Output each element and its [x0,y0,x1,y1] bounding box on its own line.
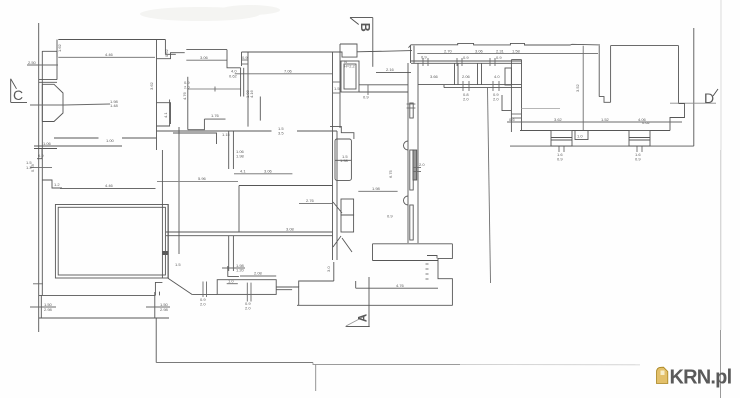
bay dimension line [30,104,110,105]
svg-text:1.0: 1.0 [577,134,583,139]
small room top left wing east [157,103,171,124]
scan smudge top [140,5,280,21]
rooms top wall row2 [157,130,272,132]
svg-text:3.06: 3.06 [475,49,484,54]
south band door ticks [463,81,499,91]
west bay upper rect [42,51,57,79]
window ticks band [423,58,495,66]
NE room east wall [678,46,680,104]
svg-text:0.9: 0.9 [363,95,369,100]
south band lower line [444,87,522,89]
door tick pair left [203,282,207,298]
svg-text:0.62: 0.62 [164,48,169,57]
svg-text:4.0: 4.0 [494,74,500,79]
section marker B [350,18,373,32]
right wing south inner wall [520,130,551,132]
svg-text:2.0: 2.0 [493,97,499,102]
dim tick crossing [222,267,245,269]
step lower left of column [157,100,170,127]
small box right mid [259,97,261,121]
svg-text:3.5: 3.5 [278,131,284,136]
corridor bottom right extension [330,126,354,139]
right wing west connect [502,95,511,111]
stairs step line [373,260,439,262]
svg-text:4.46: 4.46 [105,183,114,188]
lower outline step faint [460,364,640,366]
svg-text:1.2: 1.2 [54,182,60,187]
south band upper line [418,84,522,86]
svg-text:4.76: 4.76 [182,91,187,100]
small room rect bottom [217,280,276,295]
svg-text:2.06: 2.06 [462,74,471,79]
small room lower mid [204,118,225,120]
central room west wall [238,186,240,233]
KRN.pl logo [657,367,732,389]
svg-text:1.5: 1.5 [342,154,348,159]
svg-text:5.96: 5.96 [198,176,207,181]
central room top wall [239,185,333,187]
dimension tick left 2.5 [27,64,58,66]
svg-text:2.98: 2.98 [160,307,169,312]
svg-text:1.00: 1.00 [106,138,115,143]
wall pair east of room2a [240,68,242,97]
wall pair mid rooms upper [228,131,230,169]
corridor top wall center [242,51,413,58]
page scan edge right darker bottom [720,330,722,398]
svg-text:A: A [358,314,370,322]
svg-text:0.9: 0.9 [496,55,502,60]
svg-text:D: D [704,90,714,106]
radiator dark strip [413,150,417,180]
svg-text:1.48: 1.48 [110,103,119,108]
west wall small ledge [34,145,57,147]
svg-text:0.9: 0.9 [421,55,427,60]
section line C vertical [38,23,40,332]
stove bump 2 [404,196,409,205]
page scan edge right middle [720,150,722,330]
svg-text:0.9: 0.9 [242,55,248,60]
east wall lower pair [336,131,338,260]
svg-text:2.0: 2.0 [184,85,190,90]
svg-text:4.1: 4.1 [240,169,246,174]
west wall tie band [39,79,57,81]
dimension 4.46 room 1 [58,56,155,58]
small block above bottom room [292,287,299,305]
hall corridor south lines [359,84,408,86]
north wall room 1 [58,39,165,41]
terrace inner rectangle [58,207,165,275]
svg-text:1.58: 1.58 [512,49,521,54]
long east wall right of center [488,88,491,283]
hall tick [367,85,369,95]
lower outline horizontal [156,362,313,364]
vertical wall mid gap [178,127,180,254]
wall pair upper west [410,46,412,63]
room2a lower dim light [188,88,241,90]
right wing corridor line [522,107,561,109]
svg-text:1.98: 1.98 [236,154,245,159]
svg-text:1.20: 1.20 [236,268,245,273]
small dim 1.0 [227,283,238,285]
small niche between bays [575,131,588,140]
svg-text:0.6: 0.6 [509,117,515,122]
long east wall center block [417,63,419,243]
svg-text:B: B [358,23,372,32]
dim 2.16 hall [376,72,411,74]
section marker C [11,79,27,103]
svg-text:3.06: 3.06 [200,55,209,60]
wall ticks 1.5 [333,82,341,93]
west wall tick pair right wing [511,114,521,118]
radiator rect 3 [410,205,413,240]
svg-text:1.76: 1.76 [211,113,220,118]
room 1 east wall [156,40,158,151]
west chamfer bay [42,84,63,121]
dimension line north wing [417,53,598,55]
SW band right verticals [154,292,156,318]
room 1 NE corner step [165,40,175,55]
chamfer SW of room [168,278,192,294]
lower outline vertical [155,318,157,363]
chimney box [505,68,511,85]
lower outline drop vertical [315,365,317,392]
radiator rect 1 [410,103,413,118]
svg-text:2.50: 2.50 [28,60,37,65]
svg-text:4.46: 4.46 [105,52,114,57]
section marker A [346,314,370,327]
svg-text:5.78: 5.78 [30,163,35,172]
svg-text:2.0: 2.0 [419,162,425,167]
svg-text:0.9: 0.9 [38,153,44,158]
SW band step up [155,282,162,295]
room divider wall a [454,63,456,84]
svg-text:1.52: 1.52 [601,117,610,122]
corridor west wall pair [241,52,243,66]
right wing south outer wall [510,145,694,147]
room2a dim line [186,59,227,61]
SW band top line [39,294,156,296]
svg-text:0.9: 0.9 [557,157,563,162]
stairs platform top [373,243,453,245]
stairs right step [438,244,452,306]
section line D [670,102,716,104]
SW band right dim [146,306,170,308]
divider wall upper right b [610,46,612,103]
svg-text:6.75: 6.75 [388,169,393,178]
stair small room box [341,61,359,92]
right wing west wall cap [511,59,521,61]
corridor dim ticks west [242,60,249,64]
stair treads ticks [426,264,429,279]
svg-text:4.06: 4.06 [638,117,647,122]
niche box east of central room [335,139,351,180]
SW band bottom line [39,317,169,319]
stove bump 1 [404,141,408,150]
double line right of room [276,286,292,288]
svg-text:2.08: 2.08 [254,271,263,276]
door tick pair right [247,283,251,302]
central room bottom band [166,231,333,233]
right wing inner wall [582,46,584,131]
svg-text:0.9: 0.9 [635,157,641,162]
svg-text:2.98: 2.98 [44,307,53,312]
svg-text:4.16: 4.16 [249,89,254,98]
bottom room south wall [297,304,452,306]
stair small room inner [344,64,356,89]
right wing dim line [507,121,682,123]
window bay 1 [551,131,572,147]
dim 3.06 row2 [234,173,292,175]
north wall right wing [409,43,601,47]
divider wall upper right a [598,46,600,97]
divider niche bottom [599,97,610,103]
section line A [368,277,370,327]
svg-text:0.9: 0.9 [387,214,393,219]
low band left [192,294,217,296]
room2a east wall [227,50,241,68]
wall tick pair mid [413,168,421,172]
room 1 west wall top [56,40,58,58]
svg-text:4.1: 4.1 [163,112,168,118]
bottom room inner line [356,287,438,289]
stairs platform left [372,244,374,261]
block top line [299,281,334,287]
west wall inner line [41,51,43,295]
west wall step 1.2 [42,180,62,188]
svg-text:2.70: 2.70 [444,49,453,54]
dim 2.7 central [299,203,333,205]
svg-text:2.0: 2.0 [245,306,251,311]
svg-text:0.9: 0.9 [463,55,469,60]
step above room [228,266,239,276]
room divider wall b [477,63,479,84]
tick left wall y283 [33,283,43,285]
svg-text:3.0: 3.0 [326,266,331,272]
page scan edge right [720,0,722,150]
section marker D [704,89,718,106]
wall end hatch [162,251,168,255]
hall east wall pair [332,52,334,260]
svg-text:2.76: 2.76 [306,198,315,203]
svg-text:2.31: 2.31 [496,49,505,54]
room2a top wall [186,49,227,51]
short wall top gap [173,133,217,144]
bottom room west tick [355,281,357,288]
right wing west wall pair [510,60,512,132]
svg-text:7.06: 7.06 [284,69,293,74]
svg-text:1.06: 1.06 [43,141,52,146]
niche box mid line [335,159,351,161]
NE room top wall [611,45,679,47]
block vertical [333,262,335,281]
terrace outer rectangle [55,205,168,279]
svg-text:2.0: 2.0 [463,97,469,102]
dim row2 long light [157,181,238,183]
north band lower line [411,62,522,64]
long west wall center block [407,63,409,243]
svg-text:C: C [13,87,23,103]
north band upper line [411,60,522,62]
radiator rect 2 [410,150,413,190]
wall pair terrace east [161,150,163,278]
svg-text:1.98: 1.98 [372,186,381,191]
svg-text:KRN.pl: KRN.pl [670,367,732,389]
wall pair mid rooms lower [228,236,230,271]
svg-text:3.52: 3.52 [575,83,580,92]
dimension 7.06 corridor [235,73,333,75]
svg-text:3.66: 3.66 [430,74,439,79]
svg-text:1.5: 1.5 [175,262,181,267]
dimension 4.46 room 3 [60,188,156,190]
svg-text:0.62: 0.62 [229,74,238,79]
window bay 2 [629,131,650,147]
svg-text:3.62: 3.62 [149,81,154,90]
SW band left dim [30,306,56,308]
svg-text:3.06: 3.06 [264,169,273,174]
svg-text:1.62: 1.62 [57,43,62,52]
chamfer wall below [333,236,341,247]
room 1 south wall upper [54,137,99,139]
west dim 5.78 rotated [30,167,52,169]
svg-text:3.62: 3.62 [554,117,563,122]
svg-text:2.0: 2.0 [200,302,206,307]
svg-text:4.76: 4.76 [396,283,405,288]
svg-text:1.5: 1.5 [334,86,340,91]
svg-text:2.16: 2.16 [386,67,395,72]
stairs notch [427,256,437,259]
svg-text:1.0: 1.0 [228,279,234,284]
SW band left verticals [40,295,42,318]
east inner wall step [670,104,685,131]
svg-text:3.08: 3.08 [286,227,295,232]
section line B [372,18,374,67]
lower outline step [313,363,460,365]
dim 1.98 hall south [358,190,397,192]
mid column step between room tops [157,53,185,59]
door swing diagonals [333,202,342,213]
top notch box [340,44,357,52]
room 1 south wall lower [57,145,122,147]
west bay left wall [41,84,43,121]
wall tick pair upper [407,104,416,108]
south band left cap [443,85,445,88]
mid column long wall [187,77,189,130]
svg-text:1.15: 1.15 [222,132,231,137]
dim 2.0 above [240,275,276,277]
far east wall [693,28,695,146]
